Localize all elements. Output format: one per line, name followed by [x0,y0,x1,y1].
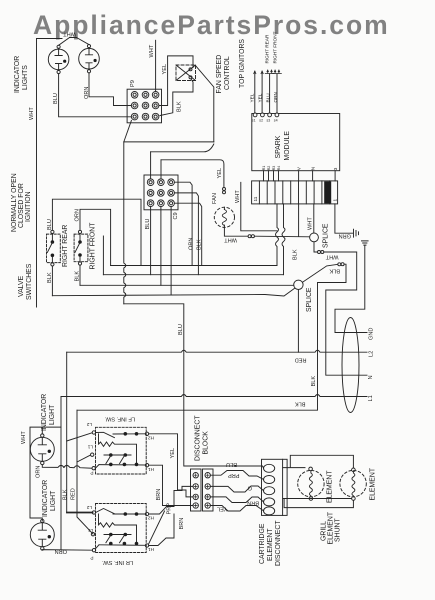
svg-text:YEL: YEL [250,93,255,102]
svg-text:BLOCK: BLOCK [203,431,210,455]
svg-text:CONTROL: CONTROL [224,56,231,90]
wire WHT lamp feeds [30,427,61,521]
svg-text:BLU: BLU [178,324,184,335]
wire WHT splice to N [314,242,367,375]
svg-text:s4: s4 [274,119,278,123]
wire bus H2 [103,274,283,276]
wire strip drop N to splice [313,204,315,233]
terminal strip TB1 [252,181,338,204]
wire BLK valve sw2 bottom [79,265,81,285]
svg-text:s1: s1 [252,119,256,123]
svg-text:ORN: ORN [189,238,195,250]
spark module pin stubs to terminal strip [264,171,336,181]
svg-text:R4: R4 [277,166,281,171]
splice S2 [294,280,303,289]
wire YEL C9 to fan (y160) [161,160,224,187]
svg-text:CLOSED FOR: CLOSED FOR [18,183,25,228]
wire strip pin1 to ground [335,204,353,233]
wire C9 lower right to bus [175,203,202,265]
svg-text:LIGHT: LIGHT [50,490,57,511]
wire ORN lamp4 to P [42,549,92,552]
svg-text:SPLICE: SPLICE [323,223,330,248]
inline connector BLK [338,263,341,266]
wire WHT left border vertical [36,39,38,308]
connector C9 [144,175,178,210]
svg-text:WHT: WHT [63,31,76,37]
disconnect block right column [203,469,214,511]
svg-text:GRN: GRN [339,233,351,239]
wire BLK splice2 diagonal to plug [303,264,338,282]
svg-text:BLK: BLK [177,101,183,112]
wire grill element shunt [284,499,353,508]
svg-text:V: V [296,166,301,170]
svg-text:SWITCHES: SWITCHES [26,263,33,300]
wire strip drop 2 with plug [282,204,285,275]
svg-text:L1: L1 [87,528,93,533]
wire RED bus left drop [66,352,68,512]
svg-text:RIGHT FRONT: RIGHT FRONT [272,31,277,63]
wire BRN diagonal to LR H1 [149,511,165,544]
svg-text:BLU: BLU [226,461,237,467]
svg-text:G: G [248,485,252,491]
svg-text:TOP IGNITORS: TOP IGNITORS [239,39,246,88]
wire y410 left drop [77,410,93,534]
svg-text:INDICATOR: INDICATOR [41,394,48,431]
wire BRN block to cartridge [211,497,264,503]
svg-text:FAN: FAN [212,193,218,204]
wire ORN valve sw2 top [80,209,111,265]
wire LF H1 to block [149,465,193,505]
svg-text:BLK: BLK [47,272,53,283]
wire P9 to y142 corner [124,121,132,304]
svg-text:LR INF. SW.: LR INF. SW. [102,559,133,565]
wire bus H3 to splice2 [80,284,294,286]
wire GRY block to cartridge [211,486,264,492]
svg-text:MODULE: MODULE [284,131,291,161]
svg-text:NORMALLY OPEN: NORMALLY OPEN [11,173,18,232]
svg-text:R3: R3 [272,166,276,171]
ignitor wire 1 (YEL) [254,72,256,113]
svg-text:BLK: BLK [75,271,81,282]
svg-text:GRILL: GRILL [321,521,328,541]
fan speed control box [176,65,196,81]
svg-text:BLU: BLU [53,93,59,104]
svg-text:IGNITION: IGNITION [25,191,32,222]
svg-text:BRN: BRN [247,500,259,506]
svg-text:ELEMENT: ELEMENT [328,511,335,544]
svg-text:1: 1 [332,199,337,202]
svg-text:YEL: YEL [217,168,223,179]
svg-text:ELEMENT: ELEMENT [370,467,377,500]
svg-text:BLU: BLU [145,219,151,230]
svg-text:BLK: BLK [63,489,69,500]
svg-text:CARTRIDGE: CARTRIDGE [259,523,266,564]
svg-text:INDICATOR: INDICATOR [42,480,49,517]
svg-text:RIGHT FRONT: RIGHT FRONT [90,222,97,270]
svg-text:11: 11 [253,196,258,201]
wire WHT P9 pin up [155,40,157,91]
svg-text:LIGHTS: LIGHTS [22,65,29,90]
svg-text:L1: L1 [368,395,374,401]
cord grommet [342,318,359,413]
svg-text:GND: GND [369,328,375,340]
svg-text:SPARK: SPARK [275,135,282,158]
grill element E2 [340,468,366,500]
svg-text:L2: L2 [86,422,92,427]
connector P9 [127,89,161,123]
svg-text:WHT: WHT [149,44,155,57]
svg-text:WHT: WHT [21,431,27,444]
ignitor wire 2 (YEL) [261,72,263,113]
wire fan speed control pointer + drop [196,66,214,142]
svg-text:ORN: ORN [75,209,81,221]
LR internals [96,509,115,514]
wire BLK fan speed control to P9 [160,79,193,116]
wire horizontal y142 [124,141,214,143]
infinite switch LR box [91,504,148,553]
wire L2 RED bus [67,350,367,352]
svg-text:L2: L2 [86,505,92,510]
LF internals [96,432,115,437]
wire BLU lamp1 to P9 [59,74,132,117]
svg-text:YEL: YEL [170,448,176,459]
svg-text:BRN: BRN [156,489,162,501]
svg-text:P9: P9 [130,80,136,87]
fan motor M1 [214,207,234,227]
svg-text:BLU: BLU [266,93,271,103]
svg-text:INDICATOR: INDICATOR [14,56,21,93]
wire WHT top junction to left border [37,38,90,46]
svg-text:DISCONNECT: DISCONNECT [195,415,202,461]
svg-text:VALVE: VALVE [18,275,25,297]
svg-text:FAN SPEED: FAN SPEED [216,55,223,94]
svg-text:LF INF. SW.: LF INF. SW. [104,416,135,422]
svg-text:BLK: BLK [329,268,340,274]
svg-text:YEL: YEL [217,506,228,512]
wire L1 BLK bus [61,395,367,397]
wire element feed top [283,455,354,468]
svg-text:RED: RED [295,357,307,363]
svg-text:s2: s2 [259,119,263,123]
inline connector fan bottom [248,235,251,238]
indicator lamp top-2 [79,45,100,73]
wire YEL LF H2 to block [149,434,193,497]
wire BLK bus left drop [60,397,62,550]
svg-text:DISCONNECT: DISCONNECT [275,520,282,566]
svg-text:L1: L1 [87,445,93,450]
wire fan bottom WHT to splice [224,227,309,236]
wire GRN ground drop [335,245,367,332]
svg-text:3: 3 [333,167,338,170]
inline connector fan top [223,188,226,191]
wire ORN C9 right to bus [175,182,193,265]
svg-text:s3: s3 [267,119,271,123]
wire strip left stub [241,182,277,230]
wire stubs into C9 top [151,152,161,179]
wire ORN lamp2 to P9 [89,73,131,106]
wire bus H1 [111,265,277,267]
wire C9 to fan-speed drop (y152) [151,144,214,152]
wire heavy feed to LR L2 [67,512,93,514]
svg-text:H1: H1 [148,547,154,552]
svg-text:N: N [368,375,374,379]
cartridge element disconnect connector [262,459,288,515]
svg-text:AppliancePartsPros.com: AppliancePartsPros.com [33,10,390,40]
wire PRP LR H2 to block [149,486,193,514]
wire BLU takeoff [124,304,264,469]
svg-text:N: N [310,167,315,170]
svg-text:ORN: ORN [36,466,42,478]
ground chassis G2 [362,241,369,245]
svg-text:WHT: WHT [29,107,35,120]
svg-text:R2: R2 [267,166,271,171]
svg-text:ELEMENT: ELEMENT [267,528,274,561]
wire ORN lamp3 to P [42,465,92,469]
indicator lamp left-rear [30,519,54,550]
splice S1 [310,233,319,242]
svg-text:ORN: ORN [84,87,90,99]
svg-text:L2: L2 [369,351,375,357]
wire diag feeds LF switch [67,433,92,462]
wire YEL P9 to fan speed control [159,56,193,106]
grill element E1 [298,467,324,500]
wire LR H1 right [149,514,174,546]
svg-text:BLK: BLK [295,401,306,407]
wire bus H4 to splice2 [52,288,294,296]
spark module U1 [252,113,340,171]
svg-text:P: P [90,556,93,561]
svg-text:BLK: BLK [311,376,317,387]
wire BLU valve sw1 top [52,199,141,265]
wire strip drop V [298,204,300,237]
disconnect block left column [191,469,202,511]
valve switch right-rear [47,230,61,266]
svg-text:RIGHT REAR: RIGHT REAR [62,225,69,267]
inline connector WHT [318,251,321,254]
wire strip drop 1 with plug [276,204,279,266]
svg-text:BLK: BLK [293,249,299,260]
wire BLK staircase to lower feed [77,264,346,410]
wire C9 pin drops to buses [151,207,172,295]
wire BLK valve sw1 bottom [51,266,53,296]
svg-text:SPLICE: SPLICE [306,287,313,312]
ignitor electrode right-front (ORN wire 4) [276,74,278,113]
svg-text:H2: H2 [148,436,154,441]
indicator lamp left-front [30,427,54,465]
svg-text:WHT: WHT [235,190,241,203]
svg-text:YEL: YEL [258,93,263,102]
indicator lamp top-1 [48,45,69,73]
ignitor electrode right-rear (BLU wire 3) [269,74,271,113]
svg-text:H1: H1 [148,467,154,472]
svg-text:ELEMENT: ELEMENT [327,470,334,503]
svg-text:P: P [90,471,93,476]
svg-text:BLK: BLK [197,239,203,250]
svg-text:WHT: WHT [224,237,237,243]
svg-text:PRP: PRP [167,503,173,515]
svg-text:LIGHT: LIGHT [49,404,56,425]
svg-text:BRN: BRN [179,518,185,530]
svg-text:ORN: ORN [55,548,67,554]
svg-text:RIGHT REAR: RIGHT REAR [265,34,270,63]
ground chassis G1 [354,229,359,237]
svg-text:C9: C9 [173,212,179,219]
svg-text:H2: H2 [148,516,154,521]
wire element bottoms [283,498,352,500]
wire PRP block to cartridge [211,471,264,480]
svg-text:PRP: PRP [228,472,240,478]
svg-text:RED: RED [71,488,77,500]
svg-text:WHT: WHT [308,217,314,230]
svg-text:YEL: YEL [162,64,168,75]
wire BLK C9 right to bus [175,193,199,275]
svg-text:SHUNT: SHUNT [335,517,342,542]
valve switch right-front [74,230,88,265]
wire splice2 drop to L2 bus [297,290,299,353]
infinite switch LF box [91,427,149,474]
wire YEL block bottom to cartridge [211,506,264,512]
svg-text:BLU: BLU [47,219,53,230]
wire stub x103 [102,236,104,275]
svg-text:WHT: WHT [325,254,338,260]
svg-text:R1: R1 [262,166,266,171]
svg-text:ORN: ORN [273,92,278,102]
